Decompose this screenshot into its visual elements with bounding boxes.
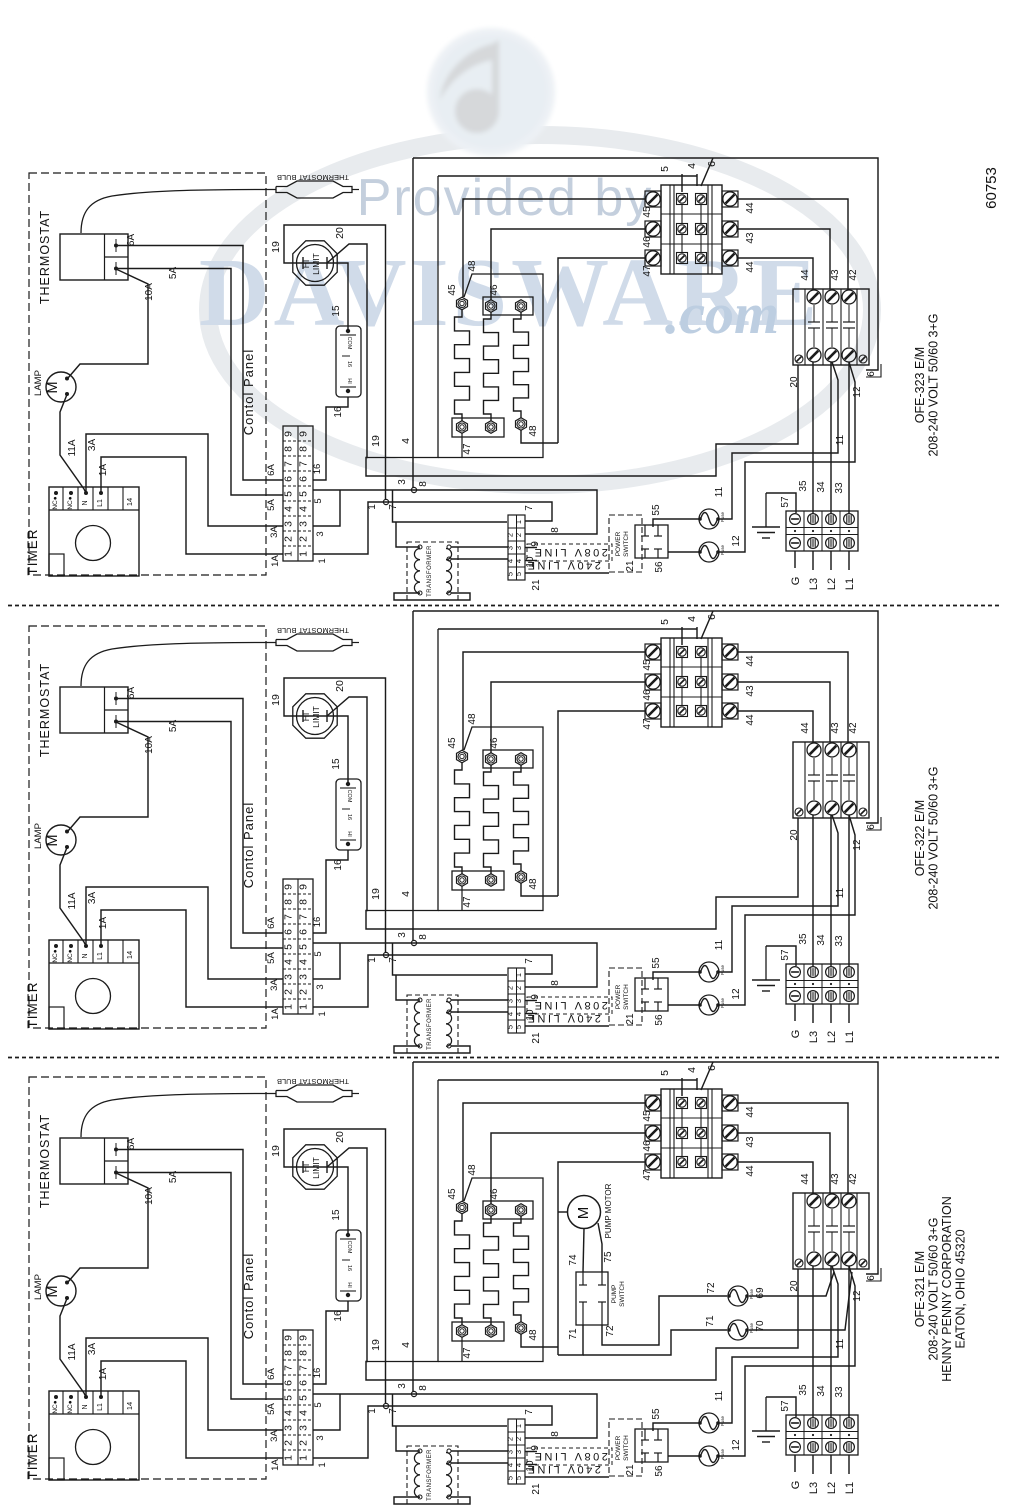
element top jumper bar 46 xyxy=(483,750,533,768)
svg-text:3: 3 xyxy=(283,974,295,980)
thermostat capillary wire xyxy=(81,643,276,687)
svg-text:.com: .com xyxy=(665,281,779,346)
svg-text:42: 42 xyxy=(848,722,859,734)
timer xyxy=(25,1391,139,1480)
wire net 6 top bus xyxy=(413,158,878,370)
heating element E2 xyxy=(484,1204,499,1338)
wire 20 hi-limit to distribution block xyxy=(327,244,798,476)
watermark xyxy=(199,28,872,485)
svg-text:11: 11 xyxy=(835,1338,846,1349)
svg-text:20: 20 xyxy=(334,1131,346,1143)
svg-text:8: 8 xyxy=(550,1431,561,1437)
svg-text:L3: L3 xyxy=(808,1031,820,1043)
svg-text:45: 45 xyxy=(642,659,653,671)
heating element E3 xyxy=(514,1204,529,1335)
svg-text:POWER: POWER xyxy=(615,984,622,1009)
terminal strip TB1 (1-9) xyxy=(283,879,314,1014)
wire switch to fuse 56 xyxy=(668,551,699,553)
control panel dashed enclosure xyxy=(29,1077,266,1479)
wire 3 to strip xyxy=(313,1394,340,1430)
heating element sheath 48 xyxy=(366,176,438,458)
svg-text:1: 1 xyxy=(283,1455,295,1461)
svg-text:57: 57 xyxy=(780,949,791,961)
svg-text:4: 4 xyxy=(514,559,523,563)
pump switch S2 xyxy=(576,1272,626,1325)
wire L2 lead xyxy=(830,1004,832,1023)
fuse block F1 (COM/16/HI) xyxy=(336,1230,361,1301)
svg-text:43: 43 xyxy=(830,269,841,281)
svg-text:3A: 3A xyxy=(87,1343,98,1356)
wire 43 contactor r2 to block xyxy=(738,682,830,742)
svg-text:19: 19 xyxy=(370,435,382,447)
wire switch to fuse 56 xyxy=(668,1455,699,1457)
svg-text:HI: HI xyxy=(346,1282,352,1288)
svg-text:L2: L2 xyxy=(826,578,838,590)
wire 16 fuse block to strip xyxy=(313,1301,348,1384)
wire transformer primary bottom xyxy=(394,1497,470,1504)
svg-text:12: 12 xyxy=(731,535,742,547)
svg-text:10A: 10A xyxy=(144,736,155,754)
svg-text:3: 3 xyxy=(397,932,408,938)
svg-text:POWER: POWER xyxy=(615,531,622,556)
element top jumper bar 46 xyxy=(483,297,533,315)
svg-text:2: 2 xyxy=(283,536,295,542)
wire motor to net 47 xyxy=(558,1211,568,1213)
thermostat bulb xyxy=(276,1077,359,1102)
svg-text:EATON, OHIO 45320: EATON, OHIO 45320 xyxy=(954,1229,968,1348)
svg-text:44: 44 xyxy=(800,269,811,281)
svg-text:20: 20 xyxy=(789,1280,800,1292)
wire 10A thermostat to lamp xyxy=(68,269,148,378)
svg-text:11: 11 xyxy=(714,1390,725,1401)
element top jumper bar 46 xyxy=(483,1201,533,1219)
svg-text:16: 16 xyxy=(346,361,352,367)
terminal strip TB1 (1-9) xyxy=(283,1330,314,1465)
wire switch to fuse 55 xyxy=(653,1423,699,1431)
svg-text:5: 5 xyxy=(283,1395,295,1401)
svg-text:9: 9 xyxy=(283,431,295,437)
wire 45 contactor to element xyxy=(463,1103,645,1201)
thermostat bulb xyxy=(276,173,359,198)
svg-text:THERMOSTAT BULB: THERMOSTAT BULB xyxy=(277,173,349,182)
svg-text:1: 1 xyxy=(298,551,310,557)
svg-text:5: 5 xyxy=(659,1070,671,1076)
svg-text:4: 4 xyxy=(686,1067,698,1073)
svg-text:45: 45 xyxy=(447,737,458,749)
wire 43 contactor r2 to block xyxy=(738,1133,830,1193)
svg-text:3: 3 xyxy=(514,1450,523,1454)
svg-text:5A: 5A xyxy=(266,1403,277,1415)
wire 47 contactor to element xyxy=(558,711,645,896)
svg-text:6: 6 xyxy=(866,371,877,377)
svg-text:M: M xyxy=(45,834,61,846)
wire switch to fuse 55 xyxy=(653,972,699,980)
heating element E2 xyxy=(484,300,499,434)
line terminal block G/L3/L2/L1 xyxy=(786,1415,858,1455)
node 3/8 xyxy=(411,940,416,945)
svg-text:HI: HI xyxy=(346,831,352,837)
svg-text:72: 72 xyxy=(706,1282,717,1294)
line voltage labels xyxy=(525,544,612,571)
hi-limit switch xyxy=(293,1145,337,1189)
svg-text:240V LINE: 240V LINE xyxy=(525,559,601,571)
svg-text:8: 8 xyxy=(298,446,310,452)
svg-text:3: 3 xyxy=(298,974,310,980)
fuse block F1 (COM/16/HI) xyxy=(336,326,361,397)
svg-text:4: 4 xyxy=(400,891,412,897)
svg-text:LIMIT: LIMIT xyxy=(311,706,321,728)
svg-text:TRANSFORMER: TRANSFORMER xyxy=(427,545,433,597)
svg-text:G: G xyxy=(790,577,802,586)
svg-text:12: 12 xyxy=(852,386,863,398)
svg-text:1: 1 xyxy=(317,1011,328,1016)
svg-text:42: 42 xyxy=(848,1173,859,1185)
svg-text:56: 56 xyxy=(654,561,665,573)
svg-text:2: 2 xyxy=(298,1440,310,1446)
svg-text:4: 4 xyxy=(514,1012,523,1016)
svg-text:5: 5 xyxy=(298,491,310,497)
svg-text:3A: 3A xyxy=(87,439,98,452)
svg-text:L1: L1 xyxy=(97,952,104,960)
svg-text:3: 3 xyxy=(315,1435,326,1440)
svg-text:20: 20 xyxy=(334,680,346,692)
svg-text:HENNY PENNY CORPORATION: HENNY PENNY CORPORATION xyxy=(940,1196,954,1381)
svg-text:74: 74 xyxy=(568,1254,579,1266)
svg-text:43: 43 xyxy=(745,232,756,244)
heating element E2 xyxy=(484,753,499,887)
wire 74 motor to pump switch xyxy=(583,1229,584,1273)
wire 10 stub xyxy=(525,1013,537,1015)
svg-text:9: 9 xyxy=(298,1335,310,1341)
svg-text:48: 48 xyxy=(528,1329,539,1341)
svg-text:NC●: NC● xyxy=(67,1400,74,1413)
svg-text:L1: L1 xyxy=(844,1031,856,1043)
svg-text:45: 45 xyxy=(447,284,458,296)
wire 21 strip to power switch xyxy=(525,1025,609,1027)
wire transformer secondary top xyxy=(451,999,508,1001)
wire 1A timer L1 to terminal strip xyxy=(101,457,283,554)
wire G lead xyxy=(794,551,796,568)
svg-text:6A: 6A xyxy=(126,234,137,247)
svg-text:1: 1 xyxy=(283,551,295,557)
svg-text:35: 35 xyxy=(798,933,809,945)
svg-text:TIMER: TIMER xyxy=(25,529,40,576)
svg-text:6: 6 xyxy=(866,824,877,830)
svg-text:47: 47 xyxy=(642,265,653,277)
svg-text:3A: 3A xyxy=(87,892,98,905)
svg-text:8: 8 xyxy=(418,1385,429,1391)
svg-text:5: 5 xyxy=(313,1402,324,1407)
svg-text:6: 6 xyxy=(283,476,295,482)
wire transformer primary top xyxy=(396,522,420,547)
svg-text:19: 19 xyxy=(370,1339,382,1351)
wire 12 block to fuse xyxy=(719,362,855,552)
wire 35 xyxy=(812,1266,814,1417)
wire 46 contactor to element xyxy=(491,682,645,753)
wire 9 stub xyxy=(525,547,537,549)
svg-text:4: 4 xyxy=(283,1410,295,1416)
wire 20 hi-limit to distribution block xyxy=(327,697,798,929)
wire 7 left branch xyxy=(393,490,508,522)
svg-text:COM: COM xyxy=(346,337,352,350)
svg-text:48: 48 xyxy=(528,425,539,437)
svg-text:M: M xyxy=(575,1207,592,1220)
hi-limit switch xyxy=(293,241,337,285)
svg-text:3: 3 xyxy=(514,999,523,1003)
svg-text:55: 55 xyxy=(651,504,662,516)
svg-text:L1: L1 xyxy=(844,578,856,590)
svg-text:240V LINE: 240V LINE xyxy=(525,1012,601,1024)
svg-text:Provided by: Provided by xyxy=(357,169,654,227)
svg-text:208-240 VOLT 50/60 3+G: 208-240 VOLT 50/60 3+G xyxy=(927,1217,941,1360)
svg-text:LAMP: LAMP xyxy=(33,1274,44,1300)
svg-text:12: 12 xyxy=(852,839,863,851)
wire 3A timer N to terminal strip xyxy=(86,1338,283,1430)
svg-text:3: 3 xyxy=(298,521,310,527)
svg-text:35: 35 xyxy=(798,480,809,492)
svg-text:21: 21 xyxy=(531,1483,542,1495)
wire 44 contactor r3 to block xyxy=(738,711,813,742)
svg-text:NC●: NC● xyxy=(67,496,74,509)
svg-text:Fuse: Fuse xyxy=(720,545,725,556)
svg-text:1: 1 xyxy=(514,1424,523,1428)
svg-text:2: 2 xyxy=(283,989,295,995)
svg-text:8: 8 xyxy=(283,1350,295,1356)
svg-text:2: 2 xyxy=(514,1437,523,1441)
thermostat T1 xyxy=(38,1114,128,1208)
svg-text:60753: 60753 xyxy=(983,167,1000,209)
wire 5A thermostat to terminal strip xyxy=(116,1173,283,1400)
wire 45 contactor to element xyxy=(463,199,645,297)
svg-text:19: 19 xyxy=(270,694,282,706)
element bottom jumper bar 47 xyxy=(452,871,504,890)
wire 16 fuse block to strip xyxy=(313,397,348,480)
label 6 block xyxy=(866,1268,881,1281)
wire net 8 left drop xyxy=(412,611,414,943)
svg-text:2: 2 xyxy=(514,986,523,990)
wire 3A timer N to terminal strip xyxy=(86,887,283,979)
svg-text:48: 48 xyxy=(528,878,539,890)
timer xyxy=(25,940,139,1029)
svg-text:LIMIT: LIMIT xyxy=(311,253,321,275)
transformer TR1 xyxy=(407,995,458,1053)
power distribution block PB1 xyxy=(793,742,869,818)
svg-text:2: 2 xyxy=(283,1440,295,1446)
svg-text:6A: 6A xyxy=(266,464,277,476)
wire 47 contactor to element xyxy=(558,258,645,443)
svg-text:16: 16 xyxy=(312,464,323,475)
svg-text:46: 46 xyxy=(642,236,653,248)
svg-text:19: 19 xyxy=(270,1145,282,1157)
wire 5 into contactor xyxy=(681,174,683,192)
svg-text:48: 48 xyxy=(467,1164,478,1176)
svg-text:4: 4 xyxy=(298,506,310,512)
svg-text:Fuse: Fuse xyxy=(749,1289,754,1300)
svg-text:Fuse: Fuse xyxy=(720,998,725,1009)
svg-text:12: 12 xyxy=(731,1439,742,1451)
svg-text:1: 1 xyxy=(283,1004,295,1010)
heating element E1 xyxy=(455,750,470,886)
svg-text:7: 7 xyxy=(388,1408,399,1414)
svg-text:5: 5 xyxy=(514,1476,523,1480)
svg-text:4: 4 xyxy=(298,1410,310,1416)
svg-text:34: 34 xyxy=(816,934,827,946)
svg-text:NC●: NC● xyxy=(52,496,59,509)
wire 46 contactor to element xyxy=(491,229,645,300)
svg-text:16: 16 xyxy=(346,1265,352,1271)
fuse 55 xyxy=(699,962,719,982)
wire net 1/7 horizontal xyxy=(313,955,552,1007)
svg-text:14: 14 xyxy=(125,1402,134,1410)
wire 15 hi-limit to fuse block xyxy=(303,716,348,784)
svg-text:16: 16 xyxy=(346,814,352,820)
wire 11 block to fuse xyxy=(719,362,838,519)
svg-text:20: 20 xyxy=(334,227,346,239)
separator 2 xyxy=(8,1057,1002,1059)
wire 47 contactor to element xyxy=(558,1162,645,1355)
svg-text:THERMOSTAT: THERMOSTAT xyxy=(38,663,52,757)
line voltage labels xyxy=(525,1448,612,1475)
svg-text:3: 3 xyxy=(514,546,523,550)
wire net 5 top bus xyxy=(438,175,697,177)
wire 11 block to fuse xyxy=(719,815,838,972)
fuse 56 xyxy=(699,542,719,562)
wire transformer secondary top xyxy=(451,546,508,548)
panel OFE-321 xyxy=(25,1062,968,1504)
svg-text:1: 1 xyxy=(317,558,328,563)
wire net 6 top bus xyxy=(413,611,878,823)
control panel dashed enclosure xyxy=(29,173,266,575)
hi-limit switch xyxy=(293,694,337,738)
svg-text:L1: L1 xyxy=(97,1403,104,1411)
svg-text:5: 5 xyxy=(659,619,671,625)
svg-text:208-240 VOLT 50/60 3+G: 208-240 VOLT 50/60 3+G xyxy=(927,766,941,909)
svg-text:M: M xyxy=(45,381,61,393)
svg-text:20: 20 xyxy=(789,376,800,388)
wire G lead xyxy=(794,1455,796,1472)
wire net 8 left drop xyxy=(412,1062,414,1394)
svg-text:43: 43 xyxy=(830,1173,841,1185)
svg-text:16: 16 xyxy=(333,1310,344,1322)
wire switch to fuse 56 xyxy=(668,1004,699,1006)
svg-text:33: 33 xyxy=(834,482,845,494)
wire 57 ground to G xyxy=(766,1397,796,1417)
svg-text:5A: 5A xyxy=(266,952,277,964)
svg-text:21: 21 xyxy=(531,579,542,591)
svg-text:47: 47 xyxy=(462,443,473,455)
wire 11 block to fuse xyxy=(719,1266,838,1423)
svg-text:8: 8 xyxy=(550,527,561,533)
wire 33 xyxy=(848,815,850,966)
svg-text:3: 3 xyxy=(397,479,408,485)
ground symbol xyxy=(752,1397,780,1442)
svg-text:208V LINE: 208V LINE xyxy=(532,999,608,1011)
svg-text:21: 21 xyxy=(625,560,636,572)
panel OFE-322 xyxy=(25,611,941,1053)
wire 5A thermostat to terminal strip xyxy=(116,269,283,496)
wire 3A timer N to terminal strip xyxy=(86,434,283,526)
svg-text:5: 5 xyxy=(283,491,295,497)
contactor C1 xyxy=(645,185,738,274)
svg-text:4: 4 xyxy=(283,506,295,512)
svg-text:1A: 1A xyxy=(98,917,109,930)
wire transformer secondary top xyxy=(451,1450,508,1452)
wire 57 ground to G xyxy=(766,946,796,966)
svg-text:1A: 1A xyxy=(270,1459,281,1471)
title block xyxy=(913,1196,968,1381)
label 6 block xyxy=(866,364,881,377)
wire transformer primary top xyxy=(396,975,420,1000)
svg-text:8: 8 xyxy=(550,980,561,986)
wire 6A thermostat to terminal strip xyxy=(116,699,283,934)
transformer terminal strip TB2 xyxy=(506,1419,526,1484)
svg-text:TIMER: TIMER xyxy=(25,982,40,1029)
fuse 55 xyxy=(699,509,719,529)
wire 16 fuse block to strip xyxy=(313,850,348,933)
svg-text:4: 4 xyxy=(514,1463,523,1467)
svg-text:9: 9 xyxy=(298,884,310,890)
svg-text:SWITCH: SWITCH xyxy=(623,531,630,557)
svg-text:44: 44 xyxy=(800,1173,811,1185)
svg-text:43: 43 xyxy=(745,1136,756,1148)
wire 5 into contactor xyxy=(681,627,683,645)
line terminal block G/L3/L2/L1 xyxy=(786,964,858,1004)
svg-text:5: 5 xyxy=(298,944,310,950)
wire 46 contactor to element xyxy=(491,1133,645,1204)
svg-text:57: 57 xyxy=(780,1400,791,1412)
svg-text:LAMP: LAMP xyxy=(33,370,44,396)
svg-text:10A: 10A xyxy=(144,283,155,301)
wire L2 lead xyxy=(830,1455,832,1474)
svg-text:5A: 5A xyxy=(266,499,277,511)
svg-text:2: 2 xyxy=(514,533,523,537)
svg-text:5: 5 xyxy=(313,498,324,503)
wire transformer secondary tap xyxy=(451,1462,508,1464)
svg-text:47: 47 xyxy=(462,896,473,908)
svg-text:16: 16 xyxy=(333,406,344,418)
wire 4 into contactor xyxy=(696,1078,698,1090)
svg-text:5: 5 xyxy=(514,572,523,576)
wire transformer primary bottom xyxy=(394,1046,470,1053)
svg-text:L1: L1 xyxy=(844,1482,856,1494)
svg-text:71: 71 xyxy=(705,1315,716,1327)
wire L1 lead xyxy=(848,1004,850,1023)
svg-text:COM: COM xyxy=(346,790,352,803)
wire transformer primary top xyxy=(396,1426,420,1451)
thermostat bulb xyxy=(276,626,359,651)
svg-text:7: 7 xyxy=(524,958,535,964)
node 3/8 xyxy=(411,487,416,492)
svg-text:9: 9 xyxy=(283,1335,295,1341)
svg-text:11A: 11A xyxy=(67,439,78,456)
wire 6 into contactor xyxy=(701,611,713,639)
svg-text:7: 7 xyxy=(298,914,310,920)
svg-text:OFE-323 E/M: OFE-323 E/M xyxy=(913,347,927,423)
svg-text:56: 56 xyxy=(654,1465,665,1477)
thermostat T1 xyxy=(38,210,128,304)
svg-text:6: 6 xyxy=(283,1380,295,1386)
svg-text:COM: COM xyxy=(346,1241,352,1254)
wire net 1/7 horizontal xyxy=(313,1406,552,1458)
wire 72 switch to fuse 69 xyxy=(602,1296,727,1345)
svg-text:THERMOSTAT BULB: THERMOSTAT BULB xyxy=(277,626,349,635)
svg-text:4: 4 xyxy=(686,163,698,169)
wire 6 into contactor xyxy=(701,158,713,186)
svg-text:1A: 1A xyxy=(98,464,109,477)
wire 34 xyxy=(830,362,832,513)
svg-text:7: 7 xyxy=(524,505,535,511)
svg-text:G: G xyxy=(790,1030,802,1039)
